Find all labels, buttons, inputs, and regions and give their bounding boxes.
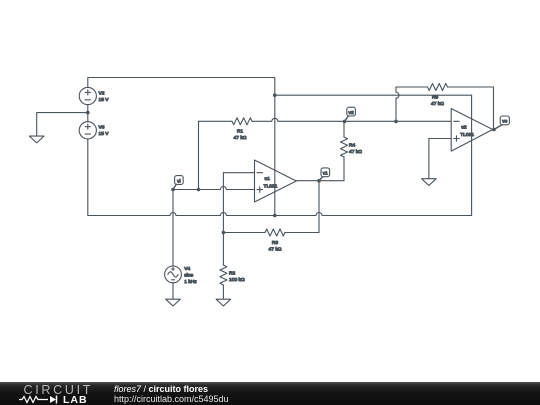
svg-text:100 kΩ: 100 kΩ (229, 277, 245, 283)
node dot v2 (343, 120, 347, 124)
wire: U2 plus input (429, 138, 451, 140)
ground G4 (422, 179, 437, 186)
wire: U2 power vertical column (471, 95, 473, 215)
wire: v1 down to R3 right (318, 181, 320, 233)
wire: U1 power vertical column (274, 95, 276, 215)
wire: +15 horizontal rail to U2 power column (275, 94, 472, 96)
svg-text:vi: vi (177, 178, 180, 184)
wire: v2 to R4 top (343, 121, 345, 137)
wire: R5 right to U2 output (448, 87, 494, 130)
svg-text:vo: vo (502, 120, 507, 125)
svg-text:TL081: TL081 (264, 183, 278, 189)
resistor R1 (232, 118, 252, 125)
wire: vi down to V4 (172, 190, 174, 267)
svg-text:V2: V2 (99, 90, 105, 96)
node dot vo (492, 128, 496, 132)
node dot v1 (317, 179, 321, 183)
voltage source V3 (79, 122, 96, 139)
footer bar (0, 382, 540, 405)
resistor R4 (341, 137, 348, 157)
svg-text:15 V: 15 V (99, 131, 110, 137)
wire: minus input column (U1) (222, 173, 224, 265)
wire: V2 bottom to V3 top (87, 105, 89, 122)
op-amp U1 (255, 160, 297, 202)
wire: R4 bottom to v1 (296, 157, 344, 181)
node label v2 (347, 107, 356, 116)
wire: bottom rail with hops (88, 213, 472, 216)
svg-text:LAB: LAB (63, 394, 88, 405)
node dot +15 rail (273, 93, 277, 97)
node label v1 (321, 168, 330, 177)
voltage source V4 (sine) (165, 266, 182, 283)
svg-text:u1: u1 (265, 176, 271, 182)
svg-text:R1: R1 (237, 128, 244, 134)
node label vi (175, 176, 184, 185)
wire: U2 plus to ground (428, 139, 430, 179)
svg-text:R5: R5 (432, 95, 439, 101)
wire: feedback vertical with hop over power rail (396, 87, 399, 121)
svg-text:15 V: 15 V (99, 97, 110, 103)
wire: V4 bottom to ground (172, 282, 174, 299)
voltage source V2 (79, 87, 96, 104)
node dot vi (171, 188, 175, 192)
node label vo (500, 116, 509, 125)
svg-text:v2: v2 (349, 110, 354, 116)
node dot R3-R2 junction (222, 231, 226, 235)
wire: V2 top to top rail corner (88, 78, 275, 96)
svg-text:u2: u2 (461, 125, 467, 131)
svg-text:sine: sine (184, 272, 193, 278)
svg-text:47 kΩ: 47 kΩ (269, 247, 282, 253)
node dot bottom rail / U1 power (273, 214, 277, 218)
resistor R3 (265, 229, 285, 236)
svg-text:V4: V4 (184, 266, 190, 272)
wire: R3 left stub (223, 232, 265, 234)
wire: R1 left vertical (198, 121, 200, 189)
wire: R1 right with hop then to v2 and U2 minus (252, 118, 451, 121)
ground G1 (29, 136, 44, 143)
resistor R2 (220, 265, 227, 285)
wire: junction to left ground (37, 113, 88, 137)
CircuitLab logo (0, 382, 100, 405)
wire: vi wire to U1 plus input with hop (173, 187, 255, 190)
svg-text:47 kΩ: 47 kΩ (234, 135, 247, 141)
svg-text:V3: V3 (99, 125, 105, 131)
node dot R1 tap (197, 188, 201, 192)
ground G2 (166, 299, 181, 306)
op-amp U2 (451, 109, 493, 152)
wire: feedback top to R5 (396, 86, 428, 88)
svg-text:47 kΩ: 47 kΩ (431, 101, 444, 107)
wire: R2 bottom to ground (222, 285, 224, 299)
svg-text:v1: v1 (323, 171, 328, 177)
node dot feedback tap (394, 120, 398, 124)
svg-text:47 kΩ: 47 kΩ (349, 149, 362, 155)
svg-text:1 kHz: 1 kHz (184, 279, 197, 285)
resistor R5 (428, 84, 448, 91)
wire: R3 right stub (285, 232, 319, 234)
svg-text:R2: R2 (229, 271, 236, 277)
svg-text:R4: R4 (349, 142, 356, 148)
node dot V2-V3 junction (86, 111, 90, 115)
svg-text:R3: R3 (272, 240, 279, 246)
svg-text:TL081: TL081 (460, 132, 474, 138)
wire: V3 bottom down to bottom rail (87, 139, 89, 216)
wire: R1 left stub (199, 120, 233, 122)
wire: minus input horizontal to U1 (223, 172, 254, 174)
ground G3 (216, 299, 231, 306)
